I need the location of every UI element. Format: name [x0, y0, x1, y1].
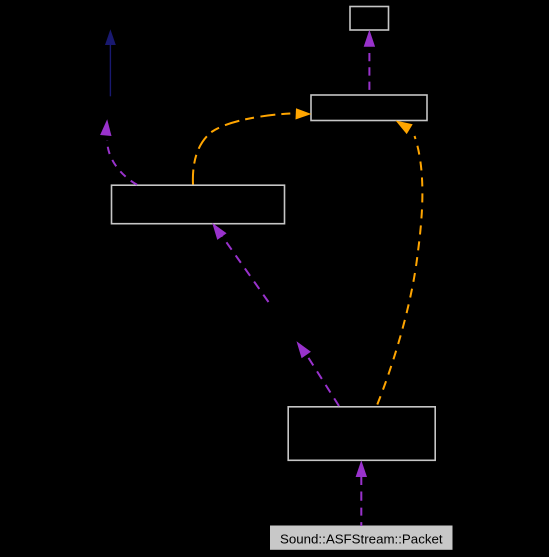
node box1 (top small class box)	[350, 7, 389, 31]
node box2 (upper wide class box)	[311, 95, 427, 121]
svg-text:Sound::ASFStream::Packet: Sound::ASFStream::Packet	[280, 532, 443, 547]
edge purple dashed vertical from box5 top to box4 bottom (arrowhead up)	[356, 460, 367, 526]
edge purple dashed diagonal lower part from box4 top with mid arrowhead up-left	[297, 341, 340, 406]
edge orange dashed big arc from box4 top to box2 bottom (arrowhead up-left)	[377, 121, 422, 405]
node box3 (left wide class box)	[112, 185, 285, 224]
edge purple dashed vertical from box2 top to box1 bottom (arrowhead up)	[364, 30, 375, 95]
edge orange dashed curve from box3 top to box2 left (arrowhead right)	[193, 108, 312, 184]
edge inheritance solid blue arrow (top-left, pointing up)	[105, 29, 116, 96]
edge purple dashed diagonal upper part into box3 bottom (arrowhead up-left)	[212, 223, 268, 302]
edge purple dashed curve from box3 top-left up to blue line (arrowhead up)	[100, 119, 137, 185]
node box4 (lower wide class box)	[288, 407, 435, 461]
node Sound::ASFStream::Packet (current node, gray filled)	[270, 526, 453, 550]
